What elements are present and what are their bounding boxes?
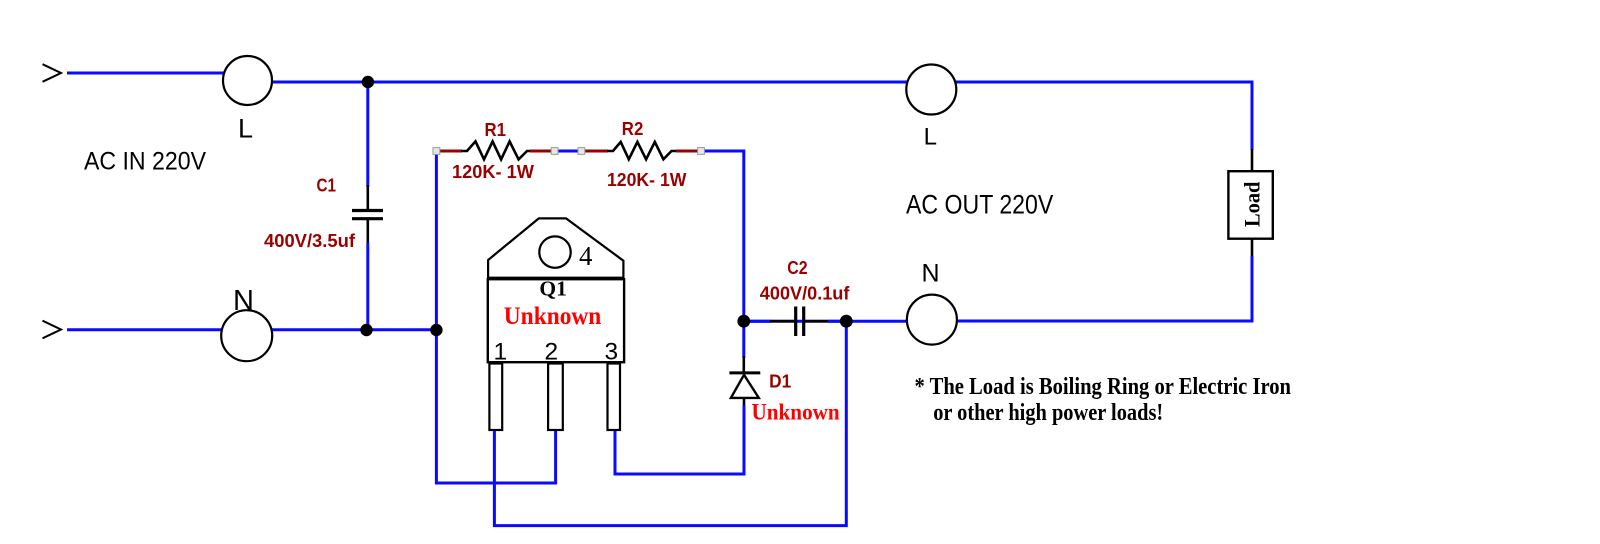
capacitor C2 plate right [802, 307, 805, 337]
transistor Q1 mounting hole [539, 236, 570, 267]
svg-text:Load: Load [1239, 182, 1264, 228]
transistor Q1 leg 1 [489, 364, 502, 431]
terminal L in [223, 56, 272, 105]
svg-text:D1: D1 [769, 372, 791, 392]
terminal N in [221, 310, 272, 361]
node marker R1 left [433, 148, 440, 155]
wire C2 left lead [770, 320, 794, 323]
resistor R2 lead right [676, 150, 700, 153]
wire C1 top lead [366, 185, 369, 209]
wire D1 top [742, 321, 745, 358]
svg-text:2: 2 [545, 339, 559, 366]
svg-text:or other high power loads!: or other high power loads! [933, 400, 1163, 426]
capacitor C1 plate top [352, 209, 383, 212]
terminal L out [906, 65, 956, 115]
junction D1 C2 [737, 315, 750, 328]
junction N to R branch [430, 324, 442, 336]
transistor Q1 body [488, 279, 624, 362]
transistor Q1 tab base line [487, 277, 625, 280]
svg-text:400V/3.5uf: 400V/3.5uf [264, 231, 356, 251]
svg-text:Unknown: Unknown [752, 400, 840, 425]
wire L-in to terminal [67, 72, 246, 75]
svg-text:AC OUT 220V: AC OUT 220V [906, 190, 1053, 220]
svg-text:L: L [924, 124, 937, 151]
transistor Q1 leg 2 [548, 364, 563, 431]
svg-text:400V/0.1uf: 400V/0.1uf [760, 283, 851, 303]
wire N-in bottom rail [67, 328, 438, 331]
wire top rail [249, 81, 1252, 84]
wire C2 right lead [805, 320, 829, 323]
svg-text:4: 4 [579, 241, 593, 271]
resistor R1 body [461, 141, 532, 159]
svg-text:1: 1 [494, 339, 508, 366]
svg-text:C1: C1 [317, 176, 337, 196]
svg-text:C2: C2 [787, 258, 807, 278]
svg-text:N: N [233, 285, 254, 317]
resistor R2 body [607, 142, 677, 159]
resistor R1 lead left [438, 150, 462, 153]
svg-text:L: L [238, 114, 253, 144]
junction top rail [362, 76, 374, 88]
wire C2 right lead blue [828, 320, 848, 323]
input arrow N [43, 321, 62, 339]
svg-text:N: N [922, 260, 940, 288]
junction C1 bottom [360, 324, 372, 336]
wire D1 anode lead [743, 398, 746, 407]
resistor R2 lead left [582, 150, 608, 153]
wire N-out to C2 [750, 320, 933, 323]
svg-text:Q1: Q1 [539, 277, 567, 301]
load box [1228, 171, 1272, 239]
svg-text:Unknown: Unknown [504, 303, 602, 330]
wire R2 to corner [701, 151, 744, 317]
svg-text:120K- 1W: 120K- 1W [452, 162, 534, 182]
wire load bottom stub [1251, 238, 1254, 257]
diode D1 triangle [731, 375, 759, 398]
wire load top stub [1251, 149, 1254, 172]
svg-text:AC IN 220V: AC IN 220V [84, 148, 206, 176]
wire C2 left lead blue [744, 320, 771, 323]
wire C1 branch bottom [366, 243, 369, 329]
wire between R1 R2 [555, 150, 582, 153]
transistor Q1 tab outline [488, 218, 623, 278]
svg-text:R1: R1 [485, 120, 507, 140]
wire C1 branch top [366, 82, 369, 187]
wire D1 cathode lead [742, 356, 745, 372]
node marker R2 left [578, 148, 585, 155]
input arrow L [43, 64, 62, 82]
node marker R2 right [698, 148, 705, 155]
diode D1 cathode bar [729, 371, 760, 374]
wire R-branch vertical left [436, 151, 555, 483]
wire C1 bottom lead [366, 220, 369, 244]
wire C2-right node to leg1 [494, 321, 846, 525]
svg-text:* The Load is Boiling Ring or: * The Load is Boiling Ring or Electric I… [915, 374, 1292, 400]
transistor Q1 leg 3 [608, 364, 621, 431]
capacitor C1 plate bottom [352, 217, 383, 220]
capacitor C2 plate left [794, 307, 797, 337]
wire top-right drop to Load [1251, 81, 1254, 151]
svg-text:R2: R2 [622, 119, 644, 139]
terminal N out [907, 295, 957, 345]
svg-text:3: 3 [605, 339, 619, 366]
wire load to bottom rail [930, 256, 1252, 321]
node marker R1 right [551, 148, 558, 155]
junction C2 right [840, 315, 853, 328]
svg-text:120K- 1W: 120K- 1W [607, 170, 686, 190]
wire D1 to leg3 [615, 405, 744, 474]
resistor R1 lead right [530, 150, 554, 153]
